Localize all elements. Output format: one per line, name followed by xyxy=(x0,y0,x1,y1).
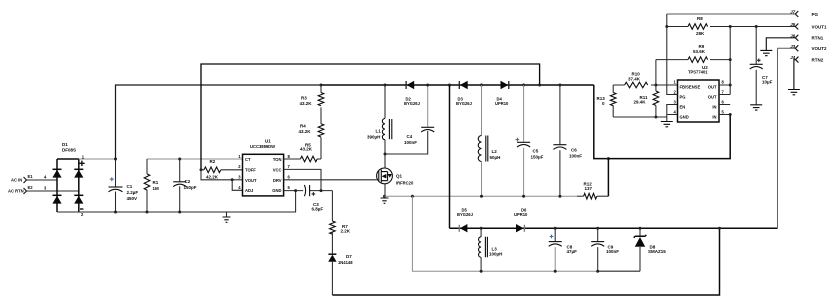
svg-text:BYG26J: BYG26J xyxy=(457,212,474,217)
svg-text:3: 3 xyxy=(673,100,676,105)
wire R1 C2 CT line xyxy=(147,158,243,160)
svg-text:29.4K: 29.4K xyxy=(634,100,647,105)
diode D1a xyxy=(53,168,62,170)
wire D5 D6 output rail xyxy=(450,227,778,229)
wire OUT bracket pins 8 7 xyxy=(719,85,730,95)
wire C4 bottom leg xyxy=(385,131,428,154)
wire EN GND bracket xyxy=(667,105,678,118)
svg-text:0: 0 xyxy=(602,101,605,106)
svg-text:43.2K: 43.2K xyxy=(299,129,312,134)
capacitor C8 47uF xyxy=(549,228,577,271)
svg-text:4: 4 xyxy=(238,185,241,190)
svg-text:42.2K: 42.2K xyxy=(206,175,219,180)
node C2 bottom xyxy=(178,211,181,214)
connector E2 (AC RTN) xyxy=(8,185,47,194)
svg-text:8: 8 xyxy=(722,80,725,85)
HV rail right end into regulator feed xyxy=(594,85,609,159)
wire GND pin / C3 line xyxy=(284,190,333,192)
svg-text:EN: EN xyxy=(680,105,686,110)
wire OUT riser to VOUT1 xyxy=(729,27,731,95)
svg-text:BYG26J: BYG26J xyxy=(404,101,421,106)
node R1 bottom xyxy=(146,211,149,214)
svg-text:BYG26J: BYG26J xyxy=(456,101,473,106)
node C1 top xyxy=(114,158,117,161)
svg-text:R1: R1 xyxy=(153,180,159,185)
ground G1 on bottom rail xyxy=(223,212,231,222)
svg-text:RTN1: RTN1 xyxy=(812,36,824,41)
wire bottom rail (bridge minus) xyxy=(57,191,296,212)
svg-text:37.4K: 37.4K xyxy=(628,77,641,82)
svg-text:7: 7 xyxy=(722,90,725,95)
node L1 top on HV rail xyxy=(384,84,387,87)
resistor R3 43.2K xyxy=(300,85,324,106)
svg-text:GND: GND xyxy=(680,115,689,120)
wire VOUT2 from J3 down to 5V rail xyxy=(778,47,796,49)
connector J5 VOUT1 xyxy=(790,22,827,29)
wire IN bracket pins 6 5 xyxy=(719,105,730,115)
svg-text:DRV: DRV xyxy=(273,178,282,183)
wire R9 feedback line xyxy=(656,59,730,61)
svg-text:10µF: 10µF xyxy=(762,80,773,85)
svg-text:E1: E1 xyxy=(28,174,34,179)
svg-text:C5: C5 xyxy=(533,149,539,154)
transistor Q1 IRFRC20 xyxy=(377,166,414,196)
svg-text:53.6K: 53.6K xyxy=(693,49,706,54)
capacitor C5 150uF xyxy=(516,85,544,196)
svg-text:E2: E2 xyxy=(28,185,34,190)
svg-text:150µF: 150µF xyxy=(531,155,544,160)
node FB junction xyxy=(654,84,657,87)
ground G6 RTN1 xyxy=(760,50,772,55)
ground G4 under U2 xyxy=(661,117,673,127)
svg-text:RTN2: RTN2 xyxy=(812,57,824,62)
svg-text:8: 8 xyxy=(288,154,291,159)
svg-text:R3: R3 xyxy=(301,96,307,101)
node L3 top xyxy=(480,227,483,230)
svg-text:4: 4 xyxy=(673,110,676,115)
diode D4 UPR10 xyxy=(495,81,509,106)
wire HV rail riser from C1 xyxy=(116,85,322,159)
svg-text:UPR10: UPR10 xyxy=(514,212,528,217)
node sense line to rail xyxy=(538,84,541,87)
svg-text:PG: PG xyxy=(812,12,819,17)
svg-text:R2: R2 xyxy=(210,159,216,164)
svg-text:R8: R8 xyxy=(697,16,703,21)
ground G2 at Q1 source xyxy=(381,196,389,203)
svg-text:5: 5 xyxy=(288,185,291,190)
node L3 bottom xyxy=(480,270,483,273)
diode D1c xyxy=(53,194,62,196)
node IN pin5 tee xyxy=(729,113,732,116)
capacitor C2 150pF xyxy=(173,159,197,212)
inductor L2 50uH xyxy=(478,85,500,196)
svg-text:C2: C2 xyxy=(185,179,191,184)
diode D6 UPR10 xyxy=(514,207,528,232)
svg-text:2.2K: 2.2K xyxy=(341,229,351,234)
svg-text:U1: U1 xyxy=(265,138,271,143)
wire C3 node down to R7 xyxy=(331,191,333,221)
resistor R13 0 xyxy=(597,85,617,117)
node GND pin drop xyxy=(294,189,297,192)
capacitor C4 100nF xyxy=(404,85,434,145)
node drop to low rail xyxy=(411,195,414,198)
svg-text:6.8µF: 6.8µF xyxy=(312,207,324,212)
wire R5 right riser to R4 xyxy=(320,137,322,159)
svg-text:C6: C6 xyxy=(571,148,577,153)
svg-text:137: 137 xyxy=(585,186,593,191)
svg-text:43.2K: 43.2K xyxy=(300,101,313,106)
svg-text:C4: C4 xyxy=(407,134,413,139)
svg-text:GND: GND xyxy=(272,188,281,193)
svg-text:6: 6 xyxy=(722,100,725,105)
svg-text:IN: IN xyxy=(712,105,716,110)
svg-text:100µH: 100µH xyxy=(489,252,502,257)
ground G5 under C7 xyxy=(750,105,762,110)
bridge rectifier D1 DF08S xyxy=(52,142,84,217)
svg-text:OUT: OUT xyxy=(708,95,717,100)
wire E2 to bridge right leg xyxy=(27,190,79,192)
node IN feed junction xyxy=(607,157,610,160)
wire HV rail main run xyxy=(321,84,594,86)
IC U2 TPS77401 box xyxy=(673,65,724,122)
wire VOUT sense top line xyxy=(201,64,540,170)
svg-text:43.2K: 43.2K xyxy=(300,146,313,151)
node C4 top on rail xyxy=(426,84,429,87)
svg-text:AC RTN: AC RTN xyxy=(8,189,24,194)
svg-text:2: 2 xyxy=(673,90,676,95)
svg-text:IRFRC20: IRFRC20 xyxy=(396,181,414,186)
svg-text:OUT: OUT xyxy=(708,85,717,90)
wire IN feed line to U2 xyxy=(608,115,730,159)
resistor R4 43.2K xyxy=(299,107,324,137)
wire very bottom rail xyxy=(332,228,719,295)
zener diode D8 SMAZ15 xyxy=(634,228,666,271)
svg-text:50µH: 50µH xyxy=(490,155,501,160)
node C2 top xyxy=(178,158,181,161)
svg-text:47µF: 47µF xyxy=(567,249,578,254)
node Q1 drain / L1 bottom / C4 bottom xyxy=(384,153,387,156)
svg-text:VOUT: VOUT xyxy=(245,178,257,183)
wire VOUT1 line to J5 xyxy=(710,26,795,28)
svg-text:2.2µF: 2.2µF xyxy=(127,190,139,195)
capacitor C7 10uF xyxy=(750,27,773,105)
resistor R8 28K xyxy=(667,16,708,36)
svg-text:VOUT2: VOUT2 xyxy=(812,46,828,51)
wire PG line from J7 xyxy=(667,13,795,15)
wire DRV to Q1 gate xyxy=(284,179,377,181)
wire VCC to C3 node xyxy=(284,169,321,190)
wire FB line R13 to U2 pin1 xyxy=(613,84,677,86)
resistor R2 42.2K xyxy=(201,159,243,180)
svg-text:390µH: 390µH xyxy=(367,135,380,140)
capacitor C3 6.8uF xyxy=(304,185,323,212)
svg-text:ADJ: ADJ xyxy=(245,188,254,193)
node VOUT1 C7 xyxy=(755,25,758,28)
diode D5 BYG26J xyxy=(457,207,474,232)
node R2 left xyxy=(200,168,203,171)
node C1 bottom xyxy=(114,211,117,214)
wire drop 412 to low return rail xyxy=(412,196,597,271)
svg-text:TON: TON xyxy=(273,157,282,162)
wire RTN2 from J4 xyxy=(794,60,796,90)
node OUT pin8 tee xyxy=(729,84,732,87)
svg-text:2: 2 xyxy=(81,212,84,217)
svg-text:6: 6 xyxy=(288,175,291,180)
wire ADJ loop xyxy=(232,180,242,191)
node D5 branch on rail xyxy=(448,84,451,87)
connector J7 PG xyxy=(790,10,818,17)
svg-text:100nF: 100nF xyxy=(606,249,619,254)
node C9 top xyxy=(596,227,599,230)
svg-text:1: 1 xyxy=(673,80,676,85)
svg-text:TPS77401: TPS77401 xyxy=(688,70,708,75)
wire R2 left vertical to VOUT xyxy=(201,170,232,180)
diode D2 BYG26J xyxy=(404,81,421,106)
svg-text:IN: IN xyxy=(712,115,716,120)
svg-text:SMAZ15: SMAZ15 xyxy=(648,249,666,254)
svg-text:2: 2 xyxy=(238,164,241,169)
node D8 top xyxy=(639,227,642,230)
node C8 bottom xyxy=(554,270,557,273)
svg-text:150pF: 150pF xyxy=(184,185,197,190)
connector J6 RTN1 xyxy=(790,33,824,40)
resistor R10 37.4K xyxy=(625,72,648,88)
svg-text:5: 5 xyxy=(722,110,725,115)
diode D1d xyxy=(74,194,83,196)
node R3 top on HV rail xyxy=(320,84,323,87)
svg-text:CT: CT xyxy=(245,157,251,162)
svg-text:AC IN: AC IN xyxy=(11,178,22,183)
svg-text:L1: L1 xyxy=(376,129,382,134)
diode D1b xyxy=(74,168,83,170)
capacitor C9 100nF xyxy=(591,228,619,271)
inductor L3 100uH xyxy=(479,228,503,271)
svg-text:J4: J4 xyxy=(790,55,796,60)
svg-text:DF08S: DF08S xyxy=(62,148,76,153)
node L2 bottom xyxy=(480,195,483,198)
capacitor C6 100nF xyxy=(553,85,582,196)
node C5 bottom xyxy=(522,195,525,198)
wire E1 to bridge left leg xyxy=(27,179,58,181)
node VOUT1 OUT riser xyxy=(729,25,732,28)
svg-text:VOUT1: VOUT1 xyxy=(812,24,828,29)
connector E1 (AC IN) xyxy=(11,174,47,183)
node C8 top xyxy=(554,227,557,230)
node bottom rail to VOUT2 rail xyxy=(718,227,721,230)
node C9 bottom xyxy=(596,270,599,273)
node C6 top xyxy=(558,84,561,87)
svg-text:7: 7 xyxy=(288,164,291,169)
wire divider ground line xyxy=(613,116,667,118)
svg-text:C1: C1 xyxy=(127,184,133,189)
resistor R9 53.6K xyxy=(688,44,708,62)
node L2 top xyxy=(480,84,483,87)
op-amp U1 UCC3889DW box xyxy=(238,138,290,196)
connector J4 RTN2 xyxy=(790,55,824,62)
capacitor C1 2.2uF 450V xyxy=(109,86,139,212)
svg-text:4: 4 xyxy=(44,175,47,180)
node C6 bottom xyxy=(558,195,561,198)
resistor R7 2.2K xyxy=(330,221,351,254)
svg-text:VCC: VCC xyxy=(273,167,282,172)
wire vertical to D5 rail xyxy=(449,85,451,228)
svg-text:UCC3889DW: UCC3889DW xyxy=(250,144,275,149)
ground G7 RTN2 xyxy=(788,90,800,95)
svg-text:1M: 1M xyxy=(153,186,160,191)
node C5 top xyxy=(522,84,525,87)
svg-text:1: 1 xyxy=(238,154,241,159)
node VOUT ADJ tie xyxy=(231,178,234,181)
svg-text:1N4148: 1N4148 xyxy=(338,260,353,265)
svg-text:3: 3 xyxy=(44,186,47,191)
svg-text:FB/SENSE: FB/SENSE xyxy=(680,85,701,90)
svg-text:TOFF: TOFF xyxy=(245,167,256,172)
node C3 right / VCC xyxy=(320,189,323,192)
svg-text:PG: PG xyxy=(680,95,686,100)
svg-text:UPR10: UPR10 xyxy=(495,101,509,106)
svg-text:100nF: 100nF xyxy=(569,154,582,159)
resistor R11 29.4K xyxy=(634,85,659,117)
connector J3 VOUT2 xyxy=(790,44,827,51)
node R11 bottom xyxy=(654,116,657,119)
inductor L1 390uH xyxy=(367,85,392,168)
diode D7 1N4148 xyxy=(328,254,353,295)
resistor R5 43.2K (TON) xyxy=(284,142,321,162)
svg-text:L2: L2 xyxy=(492,149,498,154)
wire RTN1 from J6 xyxy=(766,38,795,51)
node R9 right xyxy=(729,58,732,61)
wire bridge plus to C1 top xyxy=(79,158,116,160)
svg-text:450V: 450V xyxy=(127,196,138,201)
svg-text:28K: 28K xyxy=(696,31,705,36)
resistor R1 1M xyxy=(144,159,159,212)
node Q1 source rail start xyxy=(383,195,386,198)
svg-text:100nF: 100nF xyxy=(404,140,417,145)
node R8 to PG line xyxy=(665,25,668,28)
svg-text:D1: D1 xyxy=(62,142,68,147)
wire Q1 source rail to R12 xyxy=(385,195,578,197)
wire VOUT stub xyxy=(232,179,242,181)
diode D3 BYG26J xyxy=(456,81,473,106)
resistor R12 137 xyxy=(577,159,608,199)
svg-text:Q1: Q1 xyxy=(396,174,403,179)
svg-text:D7: D7 xyxy=(346,254,352,259)
svg-text:3: 3 xyxy=(238,175,241,180)
